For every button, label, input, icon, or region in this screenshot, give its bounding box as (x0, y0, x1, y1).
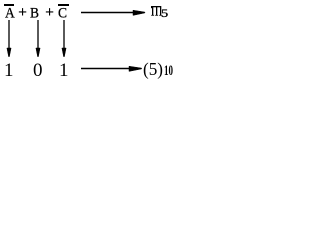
bit 0 under B (33, 61, 43, 80)
operator + (second) (45, 5, 54, 21)
bit 1 under C (59, 61, 69, 80)
down arrow under C (60, 19, 68, 57)
subscript 5 of m5 (161, 7, 168, 19)
down arrow under A (5, 19, 13, 57)
subscript 10 (164, 64, 173, 79)
arrow to minterm m5 (80, 8, 146, 18)
operator + (first) (18, 5, 27, 21)
variable C (58, 5, 67, 20)
variable A (5, 5, 15, 20)
decimal value (5) (143, 60, 163, 78)
variable B (30, 5, 39, 20)
arrow to decimal value (80, 64, 142, 74)
down arrow under B (34, 19, 42, 57)
overbar of C (58, 4, 69, 6)
overbar of A (4, 4, 14, 6)
minterm m glyph (drawn) (151, 6, 162, 16)
bit 1 under A (4, 61, 14, 80)
